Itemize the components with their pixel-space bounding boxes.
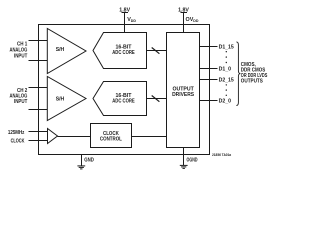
op-amp S/H channel 1 — [47, 29, 86, 74]
dots D1 bus ellipsis — [226, 51, 227, 63]
wire CH2 input + — [29, 87, 48, 89]
ground symbol GND — [77, 165, 85, 167]
svg-text:GND: GND — [84, 157, 94, 163]
wire output D2_15 — [200, 79, 218, 81]
svg-text:CLOCK: CLOCK — [11, 139, 25, 145]
svg-text:CONTROL: CONTROL — [100, 136, 123, 142]
svg-text:S/H: S/H — [56, 47, 65, 53]
ADC core block channel 1 — [93, 33, 147, 69]
svg-text:INPUT: INPUT — [14, 54, 28, 60]
svg-text:OVDD: OVDD — [186, 17, 199, 23]
wire clock - — [29, 140, 48, 142]
wire clock control to output drivers — [132, 136, 167, 138]
svg-text:ADC CORE: ADC CORE — [112, 98, 135, 104]
svg-text:S/H: S/H — [56, 96, 65, 102]
svg-text:1.8V: 1.8V — [119, 7, 130, 13]
clock buffer triangle — [48, 129, 58, 144]
wire GND stub — [81, 155, 83, 166]
clock control block — [91, 124, 132, 148]
wire OVDD supply — [183, 13, 185, 33]
svg-text:1.8V: 1.8V — [178, 7, 189, 13]
op-amp S/H channel 2 — [47, 77, 86, 121]
svg-text:OUTPUTS: OUTPUTS — [241, 79, 263, 85]
bus slash ADC1 — [152, 48, 160, 54]
svg-text:DRIVERS: DRIVERS — [172, 92, 194, 98]
svg-text:OGND: OGND — [187, 157, 198, 163]
wire ADC1 bus to output drivers — [147, 50, 167, 52]
svg-text:ADC CORE: ADC CORE — [112, 50, 135, 56]
bus slash ADC2 — [152, 96, 160, 102]
power OVDD bar — [181, 12, 188, 14]
ground symbol OGND — [180, 164, 188, 166]
svg-text:21856 TA01a: 21856 TA01a — [212, 153, 231, 157]
wire buffer to clock control — [58, 136, 91, 138]
power VDD bar — [122, 12, 129, 14]
wire CH1 input + — [29, 40, 48, 42]
output drivers block — [167, 33, 200, 148]
wire OGND stub — [183, 148, 185, 166]
svg-text:VDD: VDD — [127, 17, 136, 23]
label CMOS outputs note — [241, 62, 268, 85]
svg-text:D2_15: D2_15 — [219, 78, 234, 84]
wire output D1_15 — [200, 46, 218, 48]
wire output D1_0 — [200, 68, 218, 70]
wire VDD supply — [124, 13, 126, 33]
svg-text:125MHz: 125MHz — [8, 130, 25, 136]
svg-text:D1_0: D1_0 — [219, 67, 231, 73]
wire CH2 input - — [29, 109, 48, 111]
dots D2 bus ellipsis — [226, 84, 227, 96]
svg-text:INPUT: INPUT — [14, 99, 28, 105]
wire CH1 input - — [29, 60, 48, 62]
wire output D2_0 — [200, 100, 218, 102]
ADC core block channel 2 — [93, 82, 147, 116]
wire 125MHz clock + — [29, 131, 48, 133]
wire ADC2 bus to output drivers — [147, 98, 167, 100]
svg-text:D2_0: D2_0 — [219, 98, 231, 104]
brace outputs — [236, 42, 240, 106]
chip outline — [39, 25, 210, 155]
svg-text:D1_15: D1_15 — [219, 45, 234, 51]
